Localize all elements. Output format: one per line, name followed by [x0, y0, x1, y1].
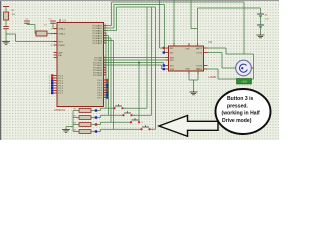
wire RST rail — [16, 41, 58, 43]
wire R6 to button — [91, 131, 101, 133]
wire OUT2 to motor left — [208, 52, 223, 54]
wire riser row4 — [155, 7, 157, 129]
wire P0 drop row1 — [104, 32, 106, 34]
wire bus1 — [104, 57, 166, 59]
junction dot bus3 — [138, 61, 140, 63]
resistor R5 — [73, 124, 79, 126]
U2 left pin stubs — [166, 47, 169, 49]
wire button 4 to riser — [150, 128, 156, 130]
svg-text:8: 8 — [49, 93, 50, 95]
wire drop U2 top aux — [173, 0, 175, 43]
wire riser row1 — [146, 7, 148, 108]
svg-text:U1: U1 — [63, 19, 67, 23]
svg-text:18: 18 — [51, 33, 53, 35]
motor right terminal — [251, 67, 254, 69]
wire top bus A — [112, 1, 245, 3]
U1 left pin stubs — [54, 28, 58, 30]
wire U2 VS up — [197, 8, 199, 43]
svg-text:Drive mode): Drive mode) — [222, 118, 252, 124]
wire top bus C — [117, 6, 156, 8]
schematic background grid — [0, 0, 279, 140]
window top border — [0, 0, 279, 2]
wire bus3 — [104, 62, 164, 64]
U2 right pin stubs — [204, 47, 208, 49]
U2 top pin stubs — [173, 43, 175, 46]
ground (reset) — [5, 41, 7, 42]
motor value box — [237, 79, 252, 85]
logic square row 3 — [95, 109, 97, 111]
chip U2 L293D body — [169, 46, 204, 71]
wire bus2 — [104, 59, 166, 61]
svg-text:P2.7/A15: P2.7/A15 — [93, 74, 103, 77]
wire top bus B — [114, 4, 165, 6]
wire R3 to button — [91, 110, 101, 112]
battery B1 — [257, 13, 264, 15]
svg-text:+0.0: +0.0 — [241, 80, 247, 84]
wire OUT4 bottom loop — [208, 68, 219, 70]
window left border — [0, 0, 2, 140]
wire top bus D — [198, 7, 261, 9]
wire RST node — [6, 33, 16, 35]
push button 1 — [115, 105, 122, 107]
logic square row 4 — [95, 116, 97, 118]
svg-text:9: 9 — [52, 41, 53, 43]
push button 2 — [124, 112, 131, 114]
wire riser row2 — [151, 7, 153, 115]
svg-text:U2: U2 — [209, 40, 213, 44]
chip U1 AT89C51 body — [57, 23, 104, 107]
resistor R4 — [73, 117, 79, 119]
wire U2 GND loop — [188, 74, 190, 80]
svg-text:GND: GND — [186, 69, 191, 71]
wire XTAL2 — [47, 33, 57, 35]
motor M1 — [236, 60, 252, 76]
U1 right logic state squares — [106, 79, 108, 81]
wire button 2 to riser — [132, 114, 152, 116]
wire P0 drop row2 — [104, 35, 109, 37]
wire bus4 — [104, 64, 162, 66]
svg-text:GND: GND — [196, 69, 201, 71]
svg-text:P1.7: P1.7 — [59, 93, 64, 95]
ground rail (buttons) — [72, 111, 74, 132]
svg-text:VSS: VSS — [186, 49, 191, 51]
logic square row 5 — [95, 123, 97, 125]
svg-text:(working in Half: (working in Half — [222, 111, 261, 117]
svg-text:XTAL1: XTAL1 — [59, 27, 66, 30]
wire top A drop to motor — [243, 2, 245, 54]
wire P0 drop row3 — [104, 37, 111, 39]
U1 left logic state squares — [51, 74, 53, 76]
svg-text:19: 19 — [51, 28, 53, 30]
push button 3 — [132, 119, 139, 121]
wire R5 to button — [91, 124, 101, 126]
svg-text:OUT3: OUT3 — [196, 65, 203, 67]
svg-text:Button 3 is: Button 3 is — [227, 96, 253, 102]
svg-text:OUT2: OUT2 — [196, 52, 203, 54]
wire U2 VSS jog — [190, 0, 192, 29]
svg-text:P0.7/AD7: P0.7/AD7 — [93, 42, 103, 45]
svg-text:L293D: L293D — [209, 75, 217, 79]
annotation ellipse — [216, 89, 271, 134]
power symbol VCC — [3, 6, 9, 8]
U1 top pin stub — [59, 19, 61, 23]
svg-text:RST: RST — [59, 41, 64, 43]
wire drop U2 IN2 — [164, 5, 166, 53]
wire P0 drop row4 — [104, 40, 114, 42]
svg-text:pressed.: pressed. — [227, 103, 249, 109]
svg-text:XTAL2: XTAL2 — [59, 32, 66, 35]
resistor R2 — [4, 12, 9, 20]
wire C1 to crystal — [27, 24, 35, 26]
wire button 1 to riser — [123, 107, 148, 109]
wire drop U2 IN1 — [159, 0, 161, 48]
logic square row 6 — [95, 130, 97, 132]
U2 left logic squares — [163, 47, 165, 49]
svg-text:PSEN: PSEN — [59, 45, 65, 47]
svg-text:29: 29 — [51, 45, 53, 47]
wire drop button3 — [138, 63, 140, 123]
U2 bottom pin stubs — [188, 71, 190, 74]
wire R4 to button — [91, 117, 101, 119]
motor left terminal — [235, 67, 237, 69]
svg-text:P3.7: P3.7 — [98, 97, 103, 99]
U1 right pin stubs — [104, 25, 107, 27]
svg-text:12V: 12V — [265, 19, 269, 21]
wire OUT1 loop — [208, 47, 227, 49]
ground (buttons) — [65, 129, 67, 130]
ground (battery) — [260, 34, 262, 35]
resistor R6 — [73, 131, 79, 133]
push button 4 — [142, 126, 149, 128]
wire battery feed — [260, 8, 262, 14]
ground (U2) — [193, 91, 195, 92]
wire XTAL1 — [53, 28, 57, 30]
resistor R3 — [73, 110, 79, 112]
capacitor C3 — [3, 26, 9, 28]
wire button 3 to riser — [138, 121, 140, 123]
annotation arrow — [159, 116, 218, 137]
svg-text:AT89C51: AT89C51 — [54, 108, 66, 112]
